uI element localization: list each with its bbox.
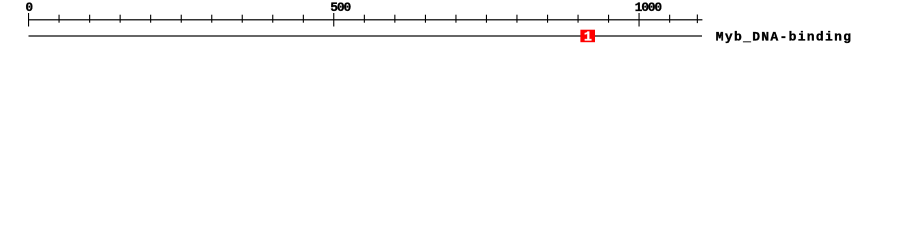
svg-text:1: 1 xyxy=(584,31,592,46)
ruler major tick 1000 xyxy=(639,13,640,27)
protein sequence line xyxy=(29,35,703,36)
ruler minor ticks (every 50 units) xyxy=(59,15,671,23)
ruler axis line xyxy=(29,19,703,20)
ruler major tick 0 xyxy=(28,13,29,27)
svg-text:1000: 1000 xyxy=(635,0,663,15)
svg-text:Myb_DNA-binding: Myb_DNA-binding xyxy=(716,30,853,45)
ruler sequence-end tick xyxy=(697,15,698,24)
svg-text:500: 500 xyxy=(330,0,351,15)
background xyxy=(0,0,900,58)
ruler major tick 500 xyxy=(333,13,334,27)
domain box (red) xyxy=(580,30,595,43)
